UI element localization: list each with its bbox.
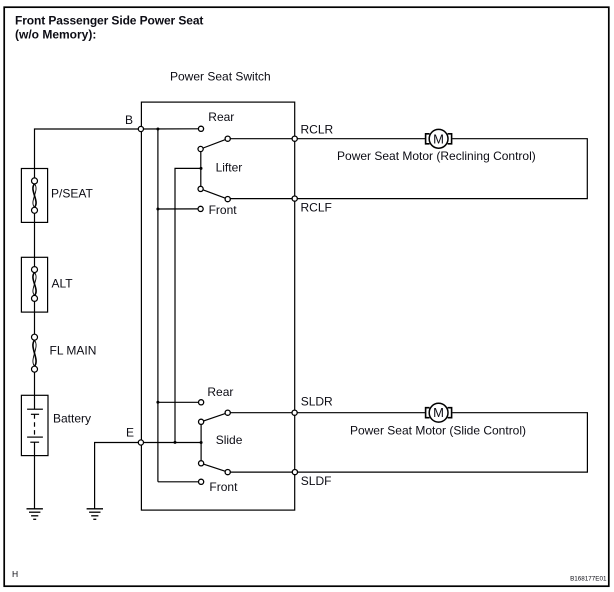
lifter upper moving contact [225,136,230,141]
svg-text:Lifter: Lifter [216,161,243,175]
node RCLF [292,196,297,201]
svg-text:SLDR: SLDR [301,395,333,409]
svg-text:Power Seat Switch: Power Seat Switch [170,70,271,84]
node B [138,126,143,131]
junction: lifter common [200,167,203,170]
slide upper moving contact [225,410,230,415]
slide lower pivot [199,461,204,466]
slide lower arm [201,463,228,472]
svg-text:Rear: Rear [208,110,234,124]
lifter upper arm [201,139,228,149]
junction: B rail top [156,128,159,131]
svg-text:H: H [12,569,18,579]
svg-text:Battery: Battery [53,411,91,425]
lifter front contact [198,206,203,211]
lifter lower pivot [198,186,203,191]
wire: lifter upper arm to RCLR [228,138,295,140]
wire: E node to slide common [141,442,201,444]
svg-text:Front Passenger Side Power Sea: Front Passenger Side Power Seat [15,14,203,28]
lifter rear contact [198,126,203,131]
power seat switch box [141,102,294,510]
svg-text:B168177E01: B168177E01 [570,575,607,582]
wire: B feed from node B left and down to P/SEAT [35,129,141,169]
junction: lifter front tap [156,208,159,211]
svg-text:FL MAIN: FL MAIN [50,344,97,358]
wire: B bus vertical (power rail inside switch) [157,129,159,482]
svg-text:RCLF: RCLF [301,201,332,215]
node SLDF [292,470,297,475]
wire: FL MAIN to battery [34,372,36,395]
svg-text:(w/o Memory):: (w/o Memory): [15,28,96,42]
wire: lifter common down to E wire [175,168,201,442]
wire: ALT to FL MAIN [34,312,36,334]
svg-text:SLDF: SLDF [301,474,332,488]
slide rear contact [199,400,204,405]
wire: B to lifter rear contact [141,128,199,130]
wire: lifter lower arm to RCLF [228,198,295,200]
svg-text:Front: Front [209,480,238,494]
junction: slide rear tap [156,401,159,404]
svg-text:M: M [433,131,444,146]
svg-text:RCLR: RCLR [301,123,334,137]
fusible link P/SEAT [21,169,47,223]
slide upper arm [201,413,228,422]
svg-text:M: M [433,405,444,420]
svg-text:Rear: Rear [207,385,233,399]
svg-text:Power Seat Motor (Slide Contro: Power Seat Motor (Slide Control) [350,424,526,438]
wire: slide upper arm to SLDR [228,412,295,414]
svg-text:Power Seat Motor (Reclining Co: Power Seat Motor (Reclining Control) [337,149,536,163]
svg-text:ALT: ALT [52,277,74,291]
ground (E) [87,509,103,520]
wire: rail to slide front contact [158,481,199,483]
slide front contact [199,479,204,484]
slide lower moving contact [225,470,230,475]
svg-text:Slide: Slide [216,433,243,447]
svg-text:Front: Front [209,203,238,217]
battery [21,395,48,455]
ground (battery) [27,509,43,520]
wire: E to ground [95,443,141,509]
lifter upper pivot [198,146,203,151]
node E [138,440,143,445]
node RCLR [292,136,297,141]
wire: slide motor loop [295,412,426,414]
lifter switch pole link [200,149,202,189]
motor (reclining control) [426,129,452,148]
node SLDR [292,410,297,415]
wire: reclining motor loop [295,138,426,140]
lifter lower arm [201,189,228,199]
wire: rail to lifter front contact [158,208,198,210]
slide upper pivot [199,419,204,424]
svg-text:E: E [126,426,134,440]
svg-text:B: B [125,113,133,127]
svg-text:P/SEAT: P/SEAT [51,186,93,200]
lifter lower moving contact [225,197,230,202]
wire: rail to slide rear contact [158,401,199,403]
wire: battery to ground [34,456,36,509]
junction: E wire / lifter common [174,441,177,444]
fusible link FL MAIN [32,334,38,372]
wire: slide lower arm to SLDF [228,471,295,473]
wire: P/SEAT to ALT [34,222,36,257]
slide switch pole link [200,422,202,464]
fusible link ALT [21,257,47,312]
junction: slide common [200,441,203,444]
motor (slide control) [426,403,452,422]
